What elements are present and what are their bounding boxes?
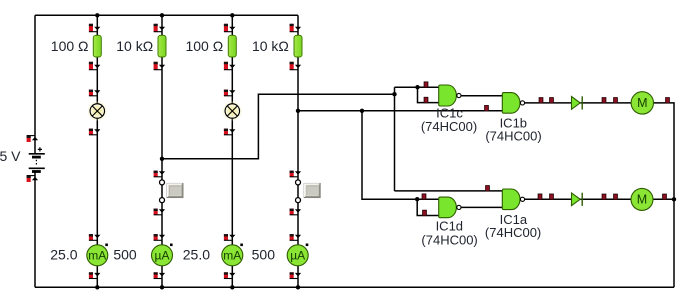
- label IC1c: [436, 105, 463, 120]
- pin marker IC1a output 1: [538, 194, 542, 199]
- battery value label 5 V: [0, 148, 21, 164]
- pin marker branch1 y236: [89, 234, 101, 240]
- node branch 2 tap: [160, 157, 164, 161]
- node bottom bus / branch 1: [95, 285, 99, 289]
- NAND gate IC1a: [502, 189, 524, 210]
- svg-text:mA: mA: [223, 249, 241, 263]
- svg-text:500: 500: [113, 247, 137, 263]
- label IC1d: [436, 219, 463, 234]
- svg-text:M: M: [637, 193, 647, 207]
- push switch SW1: [160, 180, 184, 203]
- pin marker IC1b input bottom: [485, 106, 489, 111]
- label IC1a: [500, 212, 528, 227]
- pin marker branch1 y274.2: [89, 272, 101, 278]
- label IC1a 74HC00: [485, 225, 541, 240]
- node IC1c input split: [415, 85, 419, 89]
- wire IC1c bottom input: [418, 87, 439, 102]
- pin marker IC1b output 1: [539, 98, 543, 103]
- wire to IC1d inputs: [362, 111, 439, 199]
- pin marker IC1a input top: [486, 186, 490, 191]
- wire IC1c top input: [395, 86, 439, 88]
- wire branch 3: [231, 15, 233, 287]
- lamp L1: [88, 101, 107, 120]
- push switch SW2: [296, 180, 321, 203]
- svg-text:100 Ω: 100 Ω: [185, 38, 223, 54]
- wire IC1a output to motor M2: [525, 198, 674, 200]
- pin marker branch1 y66: [89, 62, 101, 70]
- wire IC1c output to IC1b: [461, 95, 502, 97]
- svg-text:(74HC00): (74HC00): [485, 225, 541, 240]
- resistor R4 10 kOhm: [294, 35, 302, 57]
- node vertical feed: [392, 92, 396, 96]
- resistor R2 10 kOhm: [158, 35, 166, 57]
- svg-text:25.0: 25.0: [183, 247, 210, 263]
- pin marker diode D2 out 1: [602, 194, 606, 199]
- wire branch 4: [297, 15, 299, 287]
- svg-text:µA: µA: [155, 249, 170, 263]
- pin marker branch1 y91.5: [89, 90, 101, 96]
- pin marker diode D1 out 1: [602, 98, 606, 103]
- pin marker branch3 y236: [224, 234, 236, 240]
- meter reading 500 branch 2: [113, 247, 137, 263]
- pin marker battery bottom: [27, 176, 38, 182]
- pin marker branch2 y236: [154, 234, 166, 240]
- node IC1d input split: [415, 197, 419, 201]
- ammeter uA branch 4: [287, 244, 308, 266]
- node top bus / branch 2: [160, 13, 164, 17]
- resistor R1 100 Ohm: [93, 35, 101, 57]
- pin marker branch2 y66: [154, 62, 166, 70]
- ammeter mA branch 1: [87, 244, 108, 266]
- ammeter mA branch 3: [222, 244, 243, 266]
- pin marker branch1 y28: [89, 24, 101, 32]
- pin marker branch4 y210.5: [290, 209, 302, 215]
- pin marker branch2 y172.5: [154, 171, 166, 177]
- svg-text:100 Ω: 100 Ω: [51, 38, 89, 54]
- svg-text:25.0: 25.0: [50, 247, 77, 263]
- svg-text:5 V: 5 V: [0, 148, 21, 164]
- motor M2: [631, 188, 653, 210]
- wire branch 2: [161, 15, 163, 287]
- pin marker IC1b output 2: [550, 98, 554, 103]
- pin marker diode D2 out 2: [614, 194, 618, 199]
- resistor R4 value label: [252, 38, 289, 54]
- svg-text:mA: mA: [88, 249, 106, 263]
- pin marker branch4 y172.5: [290, 171, 302, 177]
- resistor R2 value label: [116, 38, 153, 54]
- NAND gate IC1d: [439, 197, 461, 218]
- meter reading 500 branch 4: [252, 247, 276, 263]
- wire branch4 to IC1b input: [298, 110, 502, 112]
- svg-text:IC1d: IC1d: [436, 219, 463, 234]
- wire IC1b output to motor M1 and right bus: [525, 103, 674, 287]
- pin marker motor M2 out: [663, 194, 667, 199]
- node bottom bus / branch 4: [296, 285, 300, 289]
- label IC1b 74HC00: [485, 129, 541, 144]
- meter reading 25.0 branch 3: [183, 247, 210, 263]
- pin marker diode D1 out 2: [614, 98, 618, 103]
- pin marker branch3 y28: [224, 24, 236, 32]
- svg-text:(74HC00): (74HC00): [485, 129, 541, 144]
- meter reading 25.0 branch 1: [50, 247, 77, 263]
- pin marker branch4 y274.2: [290, 272, 302, 278]
- node top bus / branch 3: [230, 13, 234, 17]
- wire branch 1: [96, 15, 98, 287]
- pin marker branch1 y130.5: [89, 129, 101, 135]
- pin marker branch2 y274.2: [154, 272, 166, 278]
- pin marker IC1d input top: [422, 194, 426, 199]
- node tap to IC1d: [360, 109, 364, 113]
- pin marker IC1c input bottom: [424, 97, 428, 102]
- pin marker branch3 y91.5: [224, 90, 236, 96]
- pin marker motor M1 out: [666, 98, 670, 103]
- wire left column lower: [34, 172, 36, 288]
- lamp L2: [223, 101, 242, 120]
- node top bus / branch 1: [95, 13, 99, 17]
- wire IC1d output to IC1a: [461, 206, 502, 208]
- wire branch2 tap to gates: [162, 94, 395, 159]
- pin marker branch2 y210.5: [154, 209, 166, 215]
- pin marker branch3 y274.2: [224, 272, 236, 278]
- pin marker IC1c input top: [424, 82, 428, 87]
- ammeter uA branch 2: [152, 244, 173, 266]
- NAND gate IC1b: [502, 93, 524, 114]
- node motor M2 / right bus: [672, 197, 676, 201]
- svg-text:10 kΩ: 10 kΩ: [116, 38, 153, 54]
- wire vertical feed x395: [394, 87, 396, 191]
- resistor R3 100 Ohm: [228, 35, 236, 57]
- pin marker IC1d input bottom: [423, 210, 427, 215]
- label IC1c 74HC00: [421, 119, 477, 134]
- top bus wire: [35, 14, 298, 16]
- svg-text:(74HC00): (74HC00): [421, 232, 477, 247]
- bottom bus wire: [35, 286, 674, 288]
- pin marker IC1a output 2: [550, 194, 554, 199]
- svg-text:500: 500: [252, 247, 276, 263]
- wire left column upper: [34, 15, 36, 154]
- svg-text:(74HC00): (74HC00): [421, 119, 477, 134]
- svg-text:M: M: [637, 96, 647, 110]
- pin marker branch2 y28: [154, 24, 166, 32]
- resistor R3 value label: [185, 38, 223, 54]
- wire IC1a top input: [395, 190, 503, 192]
- label IC1b: [500, 115, 527, 130]
- motor M1: [631, 92, 653, 114]
- pin marker branch3 y66: [224, 62, 236, 70]
- diode D2: [572, 193, 583, 206]
- wire IC1d bottom input: [417, 199, 439, 215]
- node bottom bus / branch 2: [160, 285, 164, 289]
- svg-text:10 kΩ: 10 kΩ: [252, 38, 289, 54]
- pin marker branch4 y28: [290, 24, 302, 32]
- diode D1: [572, 96, 583, 109]
- node bottom bus / branch 3: [230, 285, 234, 289]
- label IC1d 74HC00: [421, 232, 477, 247]
- pin marker branch4 y66: [290, 62, 302, 70]
- pin marker branch4 y236: [290, 234, 302, 240]
- resistor R1 value label: [51, 38, 89, 54]
- node branch 4 tap: [296, 109, 300, 113]
- NAND gate IC1c: [439, 85, 461, 106]
- pin marker branch3 y130.5: [224, 129, 236, 135]
- svg-text:µA: µA: [290, 249, 305, 263]
- pin marker battery top: [27, 136, 38, 142]
- battery B1 5V: [29, 147, 45, 171]
